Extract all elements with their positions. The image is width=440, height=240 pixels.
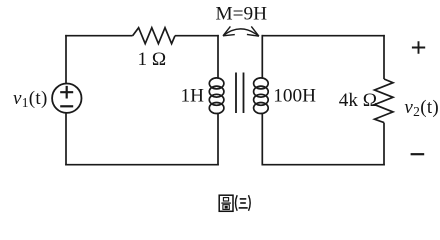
resistor R1 (1 ohm) zigzag [133,28,175,44]
svg-text:1 Ω: 1 Ω [137,49,166,70]
wire left vertical lower [65,113,67,166]
wire top of right mesh [262,35,385,37]
inductor L1 primary coil loops [209,78,224,114]
wire left vertical upper [65,35,67,84]
svg-text:v2(t): v2(t) [404,97,439,119]
caption hanzi SAN (three) strokes [239,199,248,208]
mutual inductance coupling arrow [223,26,259,36]
resistor R2 (4k ohm) zigzag [375,79,394,123]
voltage source V1 circle [52,84,81,113]
svg-text:v1(t): v1(t) [13,88,48,110]
wire bottom of left mesh [65,164,219,166]
caption close paren [249,195,251,211]
polarity minus sign for v2 [411,153,425,155]
wire primary vertical upper [217,35,219,79]
wire bottom of right mesh [262,164,385,166]
svg-text:100H: 100H [273,86,316,107]
wire right vertical upper [383,35,385,79]
transformer core lines [236,73,244,114]
svg-text:1H: 1H [181,85,205,106]
caption open paren [236,195,238,211]
wire secondary vertical upper [261,35,263,79]
wire top middle to primary [175,35,219,37]
wire primary vertical lower [217,113,219,166]
wire secondary vertical lower [261,113,263,166]
wire right vertical lower [383,123,385,166]
voltage source minus sign [60,105,73,107]
svg-text:M=9H: M=9H [216,4,268,25]
caption figure (3): hanzi TU drawn as strokes [219,195,233,211]
voltage source plus sign [60,86,73,99]
polarity plus sign for v2 [412,41,425,54]
inductor L2 secondary coil loops [254,78,269,114]
wire top-left horizontal [65,35,132,37]
svg-text:4k Ω: 4k Ω [339,90,377,111]
